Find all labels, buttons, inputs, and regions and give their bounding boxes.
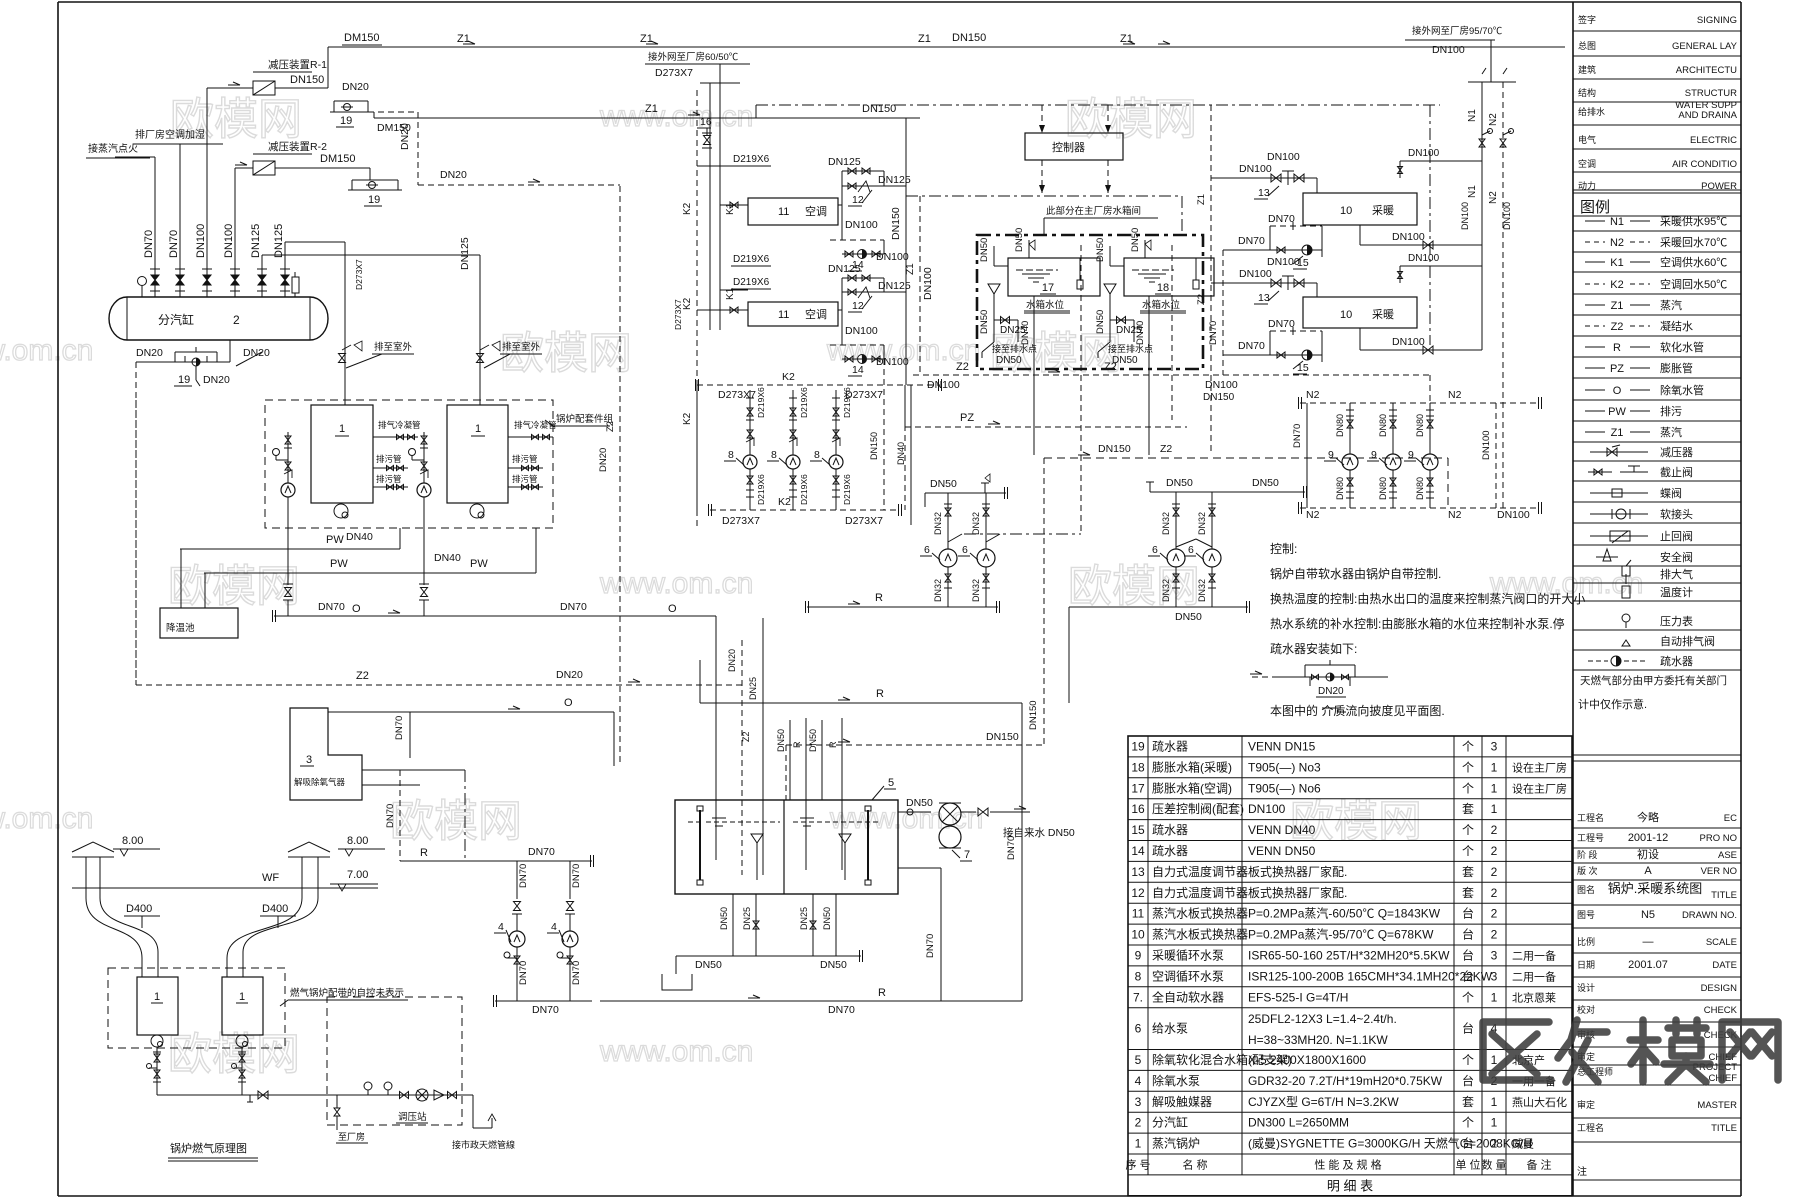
svg-text:DN100: DN100 [1239,163,1272,175]
svg-text:N2: N2 [1306,389,1320,401]
svg-text:5: 5 [888,777,894,789]
svg-text:Z2: Z2 [1196,294,1207,305]
svg-text:8.00: 8.00 [122,835,143,847]
svg-text:建筑: 建筑 [1578,64,1596,75]
boiler room enclosure dashed [108,968,285,1048]
svg-text:图名: 图名 [1577,884,1595,895]
safety vents 排至室外 [339,354,346,363]
svg-text:接外网至厂房60/50℃: 接外网至厂房60/50℃ [648,51,739,63]
svg-text:DN50: DN50 [695,959,722,971]
svg-text:采暖循环水泵: 采暖循环水泵 [1152,948,1224,962]
gas header [157,1094,330,1096]
boiler 1 (left, item 1) [311,405,373,503]
svg-text:DN100: DN100 [1408,148,1440,159]
exchanger steam piping set 1 (12) [838,204,842,206]
svg-text:水箱水位: 水箱水位 [1142,299,1181,311]
svg-text:DN150: DN150 [869,432,879,460]
tank 18 drain w/ funnel [1104,284,1116,294]
svg-text:板式换热器厂家配.: 板式换热器厂家配. [1248,885,1347,900]
svg-text:PW: PW [326,534,344,546]
svg-text:二用一备: 二用一备 [1512,969,1556,983]
svg-text:1: 1 [475,423,481,435]
svg-text:采暖: 采暖 [1372,308,1394,321]
svg-text:DN20: DN20 [598,448,609,472]
svg-text:DN32: DN32 [1161,512,1171,535]
svg-text:排污管: 排污管 [376,474,402,484]
svg-text:自动排气阀: 自动排气阀 [1660,634,1715,648]
pressure reducing set R-2 [234,168,236,265]
svg-text:3: 3 [1491,948,1498,962]
svg-text:采暖: 采暖 [1372,204,1394,217]
wire R soft water line [807,606,998,608]
svg-text:DN50: DN50 [822,907,832,930]
svg-text:阶 段: 阶 段 [1577,849,1598,860]
control dash-dot drop [1429,105,1431,345]
svg-text:1: 1 [339,423,345,435]
svg-text:个: 个 [1462,990,1474,1004]
controller box 控制器 [1025,133,1123,160]
svg-text:DN100: DN100 [876,356,909,368]
svg-text:N1: N1 [1467,109,1478,122]
svg-text:安全阀: 安全阀 [1660,550,1693,564]
radiator control feed riser [1210,105,1212,375]
svg-text:25DFL2-12X3 L=1.4~2.4t/h.: 25DFL2-12X3 L=1.4~2.4t/h. [1248,1012,1397,1026]
wire Z1/DN150 sub header [373,112,375,118]
pressure reducing set R-1 [206,88,208,265]
svg-text:锅炉.采暖系统图: 锅炉.采暖系统图 [1608,881,1703,896]
svg-text:疏水器安装如下:: 疏水器安装如下: [1270,641,1357,656]
trap return risers DN70 [1222,250,1224,375]
svg-text:分汽缸: 分汽缸 [158,312,194,327]
tank 17 outlet DN40 [1033,296,1035,369]
pump suction dash-dot link [964,533,1081,535]
svg-text:D400: D400 [262,903,288,915]
svg-text:DN50: DN50 [1130,228,1141,252]
title block [1573,827,1741,829]
svg-text:14: 14 [1131,844,1145,858]
svg-text:D219X6: D219X6 [799,387,809,418]
svg-text:12: 12 [852,194,864,206]
svg-text:13: 13 [1258,187,1270,199]
svg-text:WF: WF [262,872,279,884]
svg-text:DN70: DN70 [518,961,529,985]
svg-text:DN70: DN70 [394,716,405,740]
svg-text:DN20: DN20 [556,669,583,681]
svg-text:DN100: DN100 [223,224,235,258]
svg-text:8: 8 [1135,969,1142,983]
svg-text:N2: N2 [1488,191,1499,204]
N2 return header [1300,507,1540,509]
svg-text:DN50: DN50 [1014,228,1025,252]
expansion tank 18 [1124,258,1214,296]
svg-text:控制器: 控制器 [1052,140,1085,154]
svg-text:6: 6 [924,544,930,556]
svg-text:图例: 图例 [1580,199,1610,216]
svg-text:CJYZX型 G=6T/H N=3.2KW: CJYZX型 G=6T/H N=3.2KW [1248,1095,1399,1109]
svg-text:空调: 空调 [1578,158,1596,169]
svg-text:DN100: DN100 [1239,268,1272,280]
DN125 feeds to boilers [261,255,263,265]
wire dash-dot to pumps 4 [464,770,466,861]
svg-text:台: 台 [1462,927,1474,942]
svg-text:17: 17 [1131,781,1145,795]
svg-text:Z1: Z1 [1196,194,1207,205]
gas supply from city main [457,1094,473,1096]
svg-text:DN70: DN70 [1208,321,1219,345]
svg-text:排大气: 排大气 [1660,567,1693,581]
svg-text:欧模网: 欧模网 [168,1030,300,1079]
svg-text:DN100: DN100 [1205,379,1238,391]
tank drains to funnel [732,894,734,956]
svg-text:Z2: Z2 [741,731,751,742]
svg-text:SCALE: SCALE [1706,937,1737,948]
svg-text:欧模网: 欧模网 [1065,95,1197,144]
wire PZ expansion dashed [905,426,1187,428]
deaerator feed O line [328,711,614,713]
svg-text:除氧水管: 除氧水管 [1660,383,1704,397]
svg-text:1: 1 [1491,760,1498,774]
riser 排厂房空调加湿 [179,145,181,265]
svg-text:总图: 总图 [1578,40,1596,51]
svg-text:www.om.cn: www.om.cn [599,1035,753,1068]
svg-text:7.: 7. [1133,990,1143,1004]
svg-text:明 细 表: 明 细 表 [1327,1178,1373,1193]
svg-text:DN70: DN70 [1238,235,1265,247]
svg-text:台: 台 [1462,1021,1474,1036]
svg-text:DN70: DN70 [168,230,180,258]
ground line WF 7.00 [72,887,378,889]
svg-text:计中仅作示意.: 计中仅作示意. [1578,697,1647,711]
svg-text:校对: 校对 [1577,1004,1595,1015]
svg-text:DN40: DN40 [434,552,461,564]
svg-text:采暖回水70℃: 采暖回水70℃ [1660,236,1727,249]
svg-text:DN70: DN70 [1238,340,1265,352]
svg-text:数 量: 数 量 [1481,1158,1506,1171]
svg-text:6: 6 [1152,544,1158,556]
svg-text:排污管: 排污管 [512,454,538,464]
svg-text:欧模网: 欧模网 [168,562,300,611]
svg-text:12: 12 [1131,886,1145,900]
svg-text:DN80: DN80 [1415,414,1425,437]
svg-text:压差控制阀(配套): 压差控制阀(配套) [1152,802,1244,816]
svg-text:DN150: DN150 [1098,443,1131,455]
svg-text:1: 1 [1491,1116,1498,1130]
svg-text:Z1: Z1 [1611,427,1624,439]
svg-text:DN70: DN70 [828,1004,855,1016]
wire to Z2 condensate [135,362,137,685]
svg-text:DESIGN: DESIGN [1701,983,1738,994]
svg-text:D273X7: D273X7 [673,299,683,330]
svg-text:蒸汽水板式换热器: 蒸汽水板式换热器 [1152,927,1248,942]
svg-text:蝶阀: 蝶阀 [1660,486,1682,500]
svg-text:DN70: DN70 [560,601,587,613]
svg-text:台: 台 [1462,968,1474,983]
svg-text:排厂房空调加湿: 排厂房空调加湿 [135,128,205,141]
wire R return riser [898,867,941,869]
svg-text:8.00: 8.00 [347,835,368,847]
svg-text:Z2: Z2 [356,670,369,682]
svg-text:个: 个 [1462,823,1474,837]
svg-text:减压装置R-2: 减压装置R-2 [268,140,327,153]
svg-text:DN100: DN100 [1432,44,1465,56]
svg-text:锅炉配套件组: 锅炉配套件组 [556,413,614,425]
svg-text:X-5 2400X1800X1600: X-5 2400X1800X1600 [1248,1053,1366,1067]
svg-text:DN40: DN40 [1135,321,1146,345]
svg-text:DN32: DN32 [933,579,943,602]
chimney 2 [227,857,302,977]
svg-text:8: 8 [728,449,734,461]
svg-text:www.om.cn: www.om.cn [0,802,93,835]
svg-text:DN32: DN32 [1161,579,1171,602]
svg-text:4: 4 [551,921,557,933]
svg-text:此部分在主厂房水箱间: 此部分在主厂房水箱间 [1046,205,1141,217]
svg-text:接市政天燃管線: 接市政天燃管線 [452,1139,515,1150]
svg-text:软接头: 软接头 [1660,507,1693,521]
wire DN70 pump outlet [495,1000,592,1002]
svg-text:欧模网: 欧模网 [1290,797,1422,846]
svg-text:分汽缸: 分汽缸 [1152,1115,1188,1130]
svg-text:10: 10 [1131,928,1145,942]
svg-text:天燃气部分由甲方委托有关部门: 天燃气部分由甲方委托有关部门 [1580,674,1727,687]
svg-text:R: R [420,847,428,859]
svg-text:DN100: DN100 [1460,202,1470,230]
wire R to deaerator pumps [400,860,592,862]
svg-text:O: O [564,697,573,709]
svg-text:DM150: DM150 [377,122,411,134]
svg-text:签字: 签字 [1578,14,1596,25]
svg-text:R: R [878,987,886,999]
svg-text:排污管: 排污管 [376,454,402,464]
N1 branch connections [1400,160,1482,162]
svg-text:ISR65-50-160 25T/H*32MH20*5.5: ISR65-50-160 25T/H*32MH20*5.5KW [1248,948,1450,962]
svg-text:燕山大石化: 燕山大石化 [1512,1095,1567,1109]
svg-text:威曼: 威曼 [1512,1138,1534,1151]
svg-text:DN20: DN20 [727,649,737,672]
svg-text:R: R [876,688,884,700]
svg-text:PZ: PZ [960,412,974,424]
svg-text:2001-12: 2001-12 [1628,832,1668,844]
svg-text:DN70: DN70 [925,934,936,958]
svg-text:Z2: Z2 [1611,321,1624,333]
svg-text:控制:: 控制: [1270,542,1297,556]
svg-text:台: 台 [1462,1136,1474,1151]
svg-text:T905(—) No3: T905(—) No3 [1248,760,1321,774]
svg-text:性 能 及 规 格: 性 能 及 规 格 [1314,1157,1381,1171]
svg-text:D273X7: D273X7 [845,515,883,527]
svg-text:N5: N5 [1641,909,1655,921]
wire R bottom run [600,1000,1022,1002]
svg-text:Z2: Z2 [1104,361,1117,373]
svg-text:www.om.cn: www.om.cn [599,100,753,133]
svg-text:19: 19 [178,374,190,386]
wire DN50 outlet group2 [1069,606,1248,608]
svg-text:19: 19 [368,194,380,206]
svg-text:VENN DN15: VENN DN15 [1248,739,1316,753]
svg-text:AIR CONDITIO: AIR CONDITIO [1672,159,1737,170]
svg-text:除氧水泵: 除氧水泵 [1152,1073,1200,1088]
svg-text:DN40: DN40 [1020,321,1031,345]
svg-text:电气: 电气 [1578,134,1596,145]
svg-text:DN100: DN100 [1408,253,1440,264]
wire dash-dot distribution line [906,195,1182,197]
svg-text:DN125: DN125 [459,237,471,270]
svg-text:DN25: DN25 [799,907,809,930]
svg-text:减压装置R-1: 减压装置R-1 [268,58,327,71]
svg-text:3: 3 [1491,969,1498,983]
svg-text:R: R [828,741,838,748]
K2 bottom header D273X7 [710,509,900,511]
svg-text:CHECK: CHECK [1704,1005,1738,1016]
trap install sketch [1252,676,1275,678]
heat exchanger 11 (lower 空调) [748,302,838,326]
svg-text:自力式温度调节器: 自力式温度调节器 [1152,885,1248,900]
svg-text:K2: K2 [682,202,693,215]
watermark pattern (light) [0,95,1643,1079]
svg-text:欧模网: 欧模网 [390,797,522,846]
svg-text:Z1: Z1 [1120,33,1133,45]
svg-text:2: 2 [1491,886,1498,900]
svg-text:DN150: DN150 [1203,392,1235,403]
svg-text:换热温度的控制:由热水出口的温度来控制蒸汽阀口的开大小: 换热温度的控制:由热水出口的温度来控制蒸汽阀口的开大小 [1270,591,1585,606]
wire DN150 bottom run [786,744,1044,746]
svg-text:1: 1 [1491,990,1498,1004]
svg-text:TITLE: TITLE [1711,890,1737,901]
blowdown pipes PW [180,548,400,550]
svg-text:DN150: DN150 [890,207,902,240]
svg-text:排气冷凝管: 排气冷凝管 [514,420,557,430]
svg-text:降温池: 降温池 [166,622,195,634]
svg-text:K2: K2 [682,412,693,425]
svg-text:1: 1 [1135,1137,1142,1151]
wire DN150 dashed riser [1043,458,1045,745]
svg-text:P=0.2MPa蒸汽-95/70℃ Q=678KW: P=0.2MPa蒸汽-95/70℃ Q=678KW [1248,927,1434,942]
svg-text:PW: PW [1608,406,1626,418]
svg-text:解吸除氧气器: 解吸除氧气器 [294,777,346,787]
svg-text:D219X6: D219X6 [842,387,852,418]
svg-text:DN70: DN70 [518,864,529,888]
svg-text:截止阀: 截止阀 [1660,465,1693,479]
svg-text:疏水器: 疏水器 [1152,738,1188,753]
cooling pit 降温池 [160,608,238,638]
svg-text:13: 13 [1258,292,1270,304]
svg-text:D273X7: D273X7 [655,67,693,79]
svg-text:注: 注 [1577,1165,1587,1178]
svg-text:DN50: DN50 [979,238,990,262]
svg-text:蒸汽: 蒸汽 [1660,425,1682,439]
wire Z2/DN150 dashed [1044,457,1448,459]
svg-text:采暖供水95℃: 采暖供水95℃ [1660,214,1727,228]
svg-text:DN300 L=2650MM: DN300 L=2650MM [1248,1116,1349,1130]
combined tank 5 [675,800,898,894]
svg-text:N2: N2 [1488,113,1499,126]
svg-text:DN80: DN80 [1378,414,1388,437]
svg-text:GENERAL LAY: GENERAL LAY [1672,41,1738,52]
svg-text:ELECTRIC: ELECTRIC [1690,135,1737,146]
svg-text:PZ: PZ [1610,363,1624,375]
svg-text:设在主厂房: 设在主厂房 [1512,761,1567,774]
wire DN20 dashed to right [418,184,620,186]
svg-text:DN20: DN20 [1318,686,1344,697]
svg-text:水箱水位: 水箱水位 [1026,299,1065,311]
svg-text:给水泵: 给水泵 [1152,1022,1188,1036]
svg-text:DN125: DN125 [250,224,262,258]
svg-text:本图中的 介质流向披度见平面图.: 本图中的 介质流向披度见平面图. [1270,703,1445,718]
svg-text:DN50: DN50 [906,797,933,809]
wire DN150 drop to condensate [1210,375,1212,455]
svg-text:个: 个 [1462,781,1474,795]
svg-text:DN100: DN100 [876,251,909,263]
svg-text:DN32: DN32 [971,512,981,535]
svg-text:N1: N1 [1467,185,1478,198]
svg-text:16: 16 [1131,802,1145,816]
svg-text:19: 19 [340,115,352,127]
svg-text:1: 1 [1491,781,1498,795]
svg-text:DN100: DN100 [845,325,878,337]
svg-text:12: 12 [852,300,864,312]
svg-text:K2: K2 [782,371,795,383]
sheet frame [58,1,1741,3]
svg-text:D219X6: D219X6 [733,254,770,265]
svg-text:DN80: DN80 [1335,414,1345,437]
pressure gauge [138,277,147,286]
svg-text:O: O [668,603,677,615]
svg-text:DN32: DN32 [933,512,943,535]
boiler blowers [151,1035,163,1047]
svg-text:K2: K2 [778,496,791,508]
boiler 1 (right, item 1) [447,405,508,503]
level gauge stub [292,277,299,293]
svg-text:套: 套 [1462,802,1474,816]
radiator unit 10 (lower 采暖) [1303,297,1417,328]
svg-text:接外网至厂房95/70℃: 接外网至厂房95/70℃ [1412,25,1503,37]
svg-text:设在主厂房: 设在主厂房 [1512,782,1567,795]
svg-text:D219X6: D219X6 [733,154,770,165]
svg-text:7.00: 7.00 [347,869,368,881]
svg-text:Z2: Z2 [1160,443,1172,455]
svg-text:DN40: DN40 [346,531,373,543]
svg-text:K2: K2 [1610,279,1623,291]
svg-text:O: O [352,603,361,615]
svg-text:DN50: DN50 [1095,310,1106,334]
boiler feed pumps w/ valves [273,449,280,456]
svg-text:DN20: DN20 [342,81,369,93]
svg-text:2: 2 [1491,865,1498,879]
svg-text:DN50: DN50 [719,907,729,930]
svg-text:(威曼)SYGNETTE G=3000KG/H 天燃气G: (威曼)SYGNETTE G=3000KG/H 天燃气G=2008KG/H [1248,1136,1532,1151]
tank internals left [699,810,701,880]
svg-text:欧模网: 欧模网 [1068,562,1200,611]
svg-text:ASE: ASE [1718,850,1737,861]
svg-text:2: 2 [1491,907,1498,921]
svg-text:DN70: DN70 [385,804,396,828]
svg-text:7: 7 [964,849,970,861]
svg-text:P=0.2MPa蒸汽-60/50℃ Q=1843KW: P=0.2MPa蒸汽-60/50℃ Q=1843KW [1248,906,1441,921]
trap set 15 (upper) [1270,225,1322,227]
svg-text:DN50: DN50 [930,478,957,490]
svg-text:蒸汽: 蒸汽 [1660,298,1682,312]
tank internals right [793,821,880,823]
svg-text:压力表: 压力表 [1660,614,1693,628]
water supply unit 7 [898,811,931,813]
svg-text:个: 个 [1462,739,1474,753]
svg-text:套: 套 [1462,886,1474,900]
deaerator 3 解吸除氧气器 [290,708,362,800]
wire O to tank riser [715,616,717,860]
svg-text:DN100: DN100 [1267,256,1300,268]
svg-text:—: — [1643,936,1654,948]
svg-text:排污管: 排污管 [512,474,538,484]
svg-text:设计: 设计 [1577,982,1595,993]
